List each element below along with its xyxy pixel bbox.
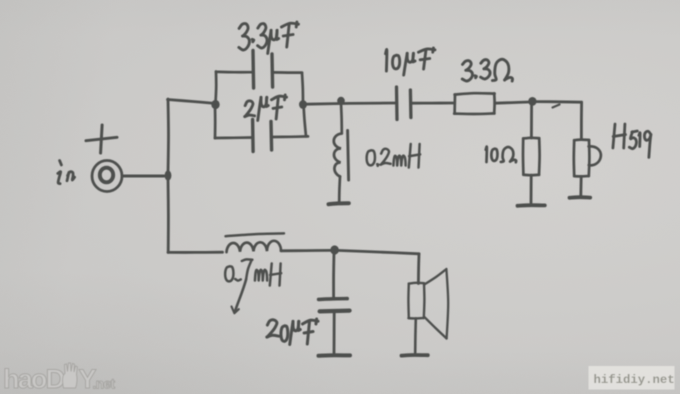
svg-text:.net: .net [93, 377, 116, 392]
label 10uF for C3 [386, 48, 435, 75]
inductor L1 0.2mH [334, 103, 349, 202]
label H519 [613, 124, 651, 157]
label 3.3uF for C1 [239, 22, 299, 53]
ground below C4 [319, 353, 351, 358]
label 0.2mH for L1 [367, 144, 421, 168]
node F junction [330, 245, 339, 254]
svg-text:haoD: haoD [3, 364, 65, 394]
node D junction for L1 tap [337, 97, 345, 105]
woofer SP1 [408, 269, 448, 353]
ground below L1 [329, 203, 349, 204]
watermark haodiy bottom left [3, 363, 116, 394]
node C junction [299, 100, 307, 109]
label in [58, 161, 75, 184]
tweeter H519 [574, 140, 601, 197]
resistor R1 3.3ohm [454, 93, 494, 114]
input connector J1 [92, 161, 122, 192]
node A junction [165, 170, 172, 180]
capacitor C2 2uF bottom loop [215, 106, 308, 152]
node E junction [528, 97, 536, 106]
label 0.7mH for L2 with arrow tail [225, 259, 281, 313]
wire node A up to top branch [168, 99, 217, 174]
node B junction [211, 100, 219, 109]
svg-text:hifidiy.net: hifidiy.net [594, 373, 675, 387]
label 3.3ohm for R1 [462, 59, 512, 81]
wire R1 to node E [495, 102, 529, 103]
label 20uF for C4 [267, 319, 318, 344]
wire node E to tweeter branch [535, 102, 582, 140]
ground below tweeter [570, 195, 591, 199]
inductor L2 0.7mH [226, 233, 285, 252]
wire L2 to node F [281, 249, 331, 252]
ground below woofer [402, 353, 428, 357]
wire node F to woofer [337, 250, 419, 283]
label 10ohm for R2 [486, 147, 516, 163]
resistor R2 10ohm [523, 103, 540, 203]
wire node A down to woofer branch [168, 178, 223, 252]
capacitor C1 3.3uF top loop [216, 51, 304, 104]
ground below R2 [518, 203, 545, 207]
wire input to node A [123, 175, 165, 178]
capacitor C4 20uF [319, 253, 350, 353]
capacitor C3 10uF [397, 87, 454, 120]
wire node C to capacitor C3 [306, 103, 396, 104]
watermark hifidiy bottom right [589, 366, 675, 390]
label 2uF for C2 [245, 95, 287, 120]
plus polarity mark [86, 125, 117, 153]
